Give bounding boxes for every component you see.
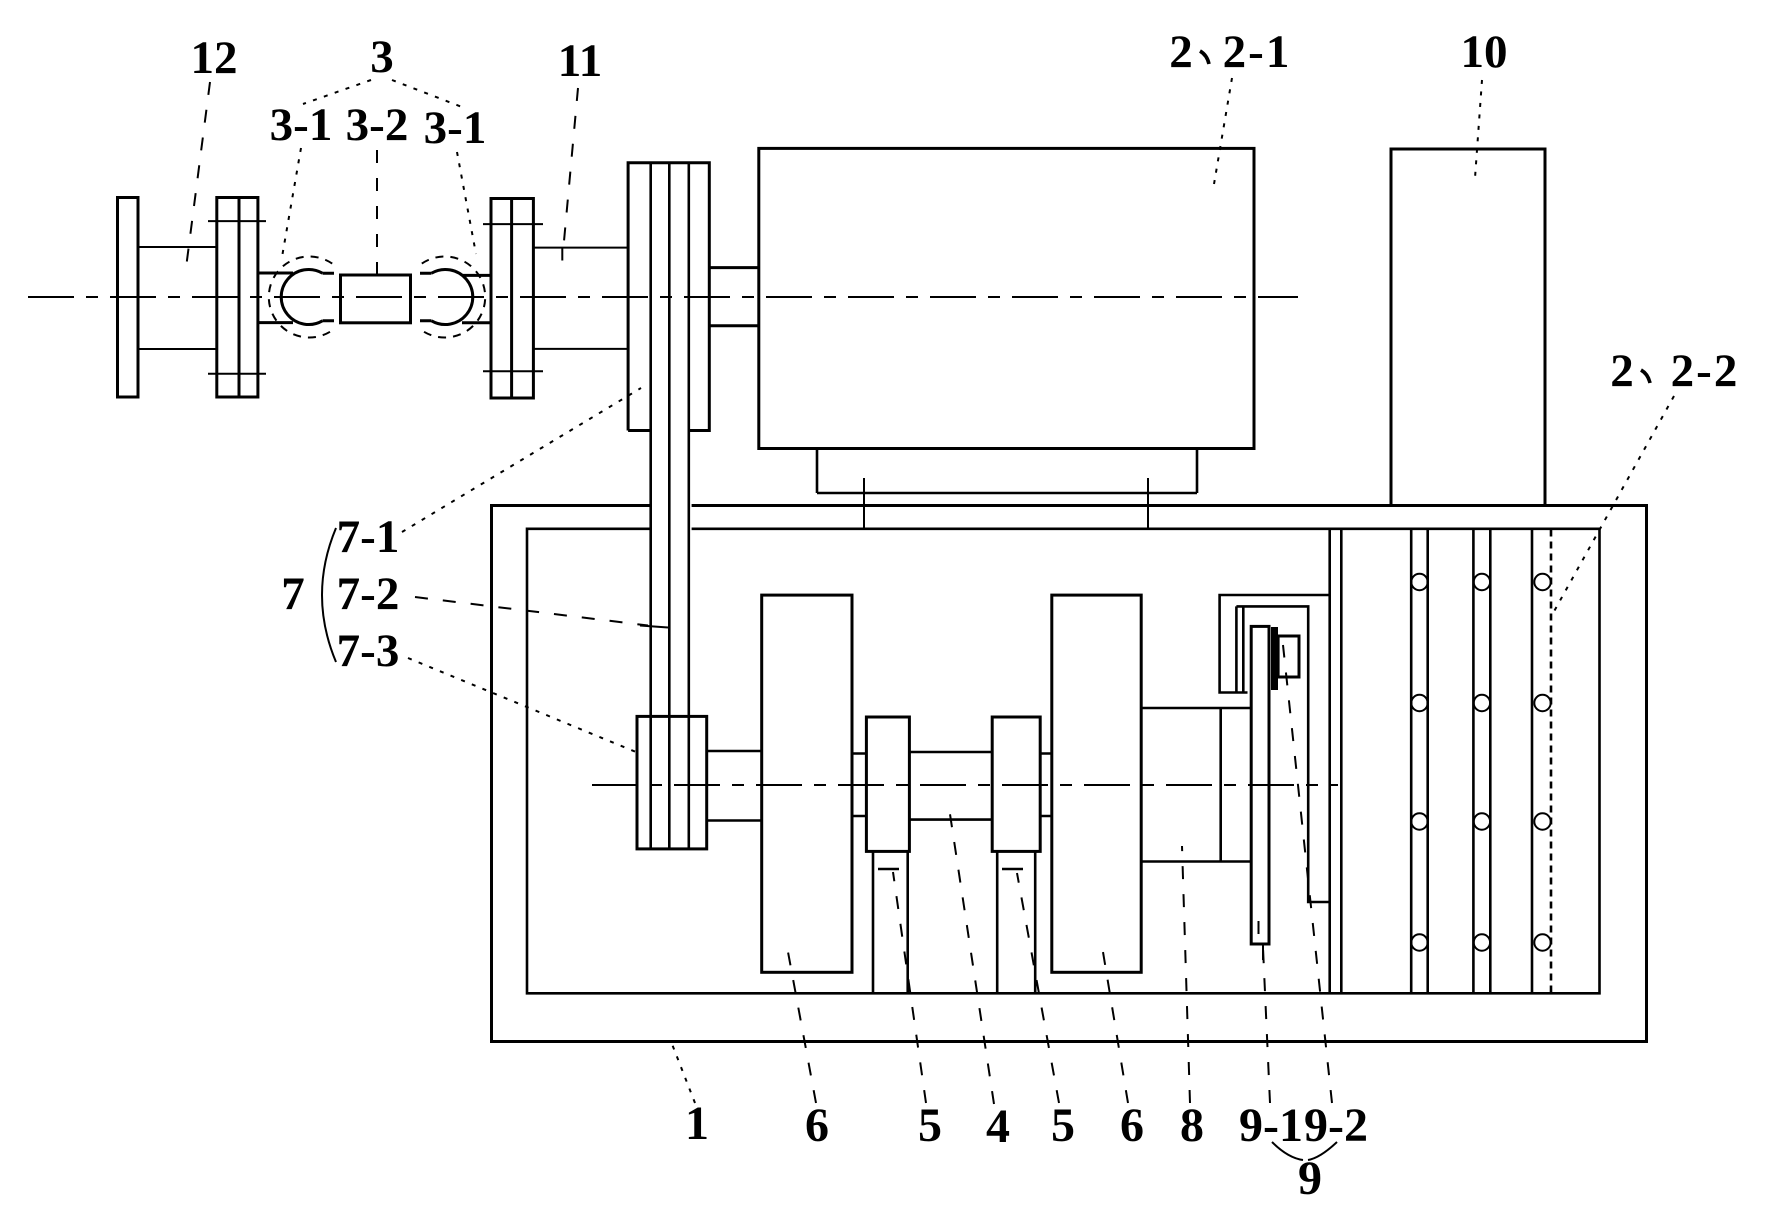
svg-text:2: 2 [1610, 345, 1634, 397]
leader 7-3 [408, 658, 636, 752]
pedestal under wheel 5 first [873, 851, 908, 993]
motor base feet [817, 449, 1197, 494]
shaft stub disc to wheel [852, 754, 866, 817]
housing 1 inner box [527, 529, 1600, 994]
slider block 9-2 [1278, 636, 1299, 677]
svg-text:5: 5 [1051, 1099, 1075, 1152]
disc 6 first [762, 595, 852, 972]
plate 2-2 third [1532, 530, 1551, 994]
brace for 9 [1272, 1142, 1337, 1160]
leader 5 first [893, 872, 926, 1103]
leader 6 second [1103, 952, 1128, 1103]
flange pair C [483, 199, 543, 399]
coupling sleeve 3-2 [341, 275, 411, 323]
housing 1 outer box [492, 506, 1647, 1042]
pulley 7-1 upper [628, 163, 709, 431]
leader fork 3 [303, 80, 462, 107]
svg-text:2-2: 2-2 [1671, 345, 1740, 397]
svg-text:11: 11 [558, 35, 602, 87]
wheel 5 second [992, 717, 1040, 851]
leader 3-1 left [282, 148, 301, 257]
svg-text:2: 2 [1169, 26, 1193, 78]
svg-text:9-1: 9-1 [1239, 1099, 1303, 1152]
pipe 11 [533, 248, 628, 349]
svg-text:2-1: 2-1 [1223, 26, 1292, 78]
svg-text:3-2: 3-2 [346, 99, 409, 151]
leader 3-2 [376, 150, 378, 276]
flange pair B [208, 198, 266, 398]
leader 2,2-2 [1552, 396, 1674, 615]
divider wall [1330, 529, 1342, 994]
svg-text:1: 1 [685, 1097, 709, 1150]
wheel 5 first [866, 717, 909, 851]
svg-text:12: 12 [191, 32, 238, 84]
coupling half 3-1 left solid arc [281, 270, 334, 325]
lever bar 9-1 [1251, 626, 1269, 944]
svg-text:4: 4 [986, 1100, 1010, 1153]
upper shaft center line [28, 296, 1298, 298]
svg-text:10: 10 [1461, 26, 1508, 78]
svg-text:7-3: 7-3 [337, 625, 400, 677]
bracket of mechanism 9 [1220, 595, 1330, 902]
label 2,2-1 [1169, 26, 1291, 78]
middle shaft 4 [909, 752, 992, 820]
shaft stub coupling to flange C [462, 275, 491, 322]
pulley 7-3 lower [637, 716, 707, 849]
svg-text:3-1: 3-1 [270, 99, 333, 151]
belt 7-2 vertical lines [651, 163, 689, 849]
shaft stub wheel to disc second [1040, 754, 1052, 817]
leader 5 second [1017, 873, 1059, 1103]
plate 2-2 first [1411, 530, 1428, 994]
leader 7-1 [402, 388, 641, 532]
svg-text:5: 5 [918, 1099, 942, 1152]
leader 7-2 [415, 597, 648, 626]
leader 2,2-1 [1213, 78, 1232, 190]
svg-text:7-1: 7-1 [337, 511, 400, 563]
control box 10 [1391, 149, 1545, 506]
leader 1 [672, 1044, 695, 1103]
leader 8 [1182, 846, 1190, 1103]
svg-text:6: 6 [1120, 1099, 1144, 1152]
shaft stub B to coupling [258, 273, 293, 323]
motor 2-1 [759, 148, 1254, 448]
leader 11 [563, 88, 578, 252]
svg-text:7-2: 7-2 [337, 568, 400, 620]
coupling half 3-1 left dashed arc [269, 257, 332, 338]
svg-text:3: 3 [370, 31, 394, 83]
disc 6 second [1052, 595, 1141, 972]
plate 2-2 second [1473, 530, 1490, 994]
motor base bolt ticks [864, 478, 1148, 528]
bearing block 8 [1141, 708, 1251, 862]
pipe spool 12 [138, 247, 217, 349]
leader 12 [186, 82, 210, 268]
label 2,2-2 [1610, 345, 1739, 397]
motor shaft stub [709, 268, 759, 326]
coupling half 3-1 right dashed arc [422, 257, 485, 338]
leader 3-1 right [457, 152, 476, 254]
dark strip behind bar [1271, 627, 1278, 690]
svg-text:3-1: 3-1 [424, 102, 487, 154]
brace for 7 group [322, 528, 336, 662]
leader 9-1 [1263, 948, 1270, 1103]
leader 9-2 [1283, 645, 1332, 1103]
flange 12 left plate [118, 198, 139, 398]
shaft stub pulley to disc [707, 751, 762, 821]
leader 4 [948, 801, 994, 1104]
svg-text:7: 7 [281, 568, 305, 620]
leader 6 first [788, 952, 816, 1103]
pedestal under wheel 5 second [997, 851, 1035, 993]
lower shaft center line [592, 784, 1338, 786]
coupling half 3-1 right solid arc [420, 270, 473, 325]
svg-text:6: 6 [805, 1099, 829, 1152]
svg-text:8: 8 [1180, 1099, 1204, 1152]
leader 10 [1475, 80, 1482, 178]
